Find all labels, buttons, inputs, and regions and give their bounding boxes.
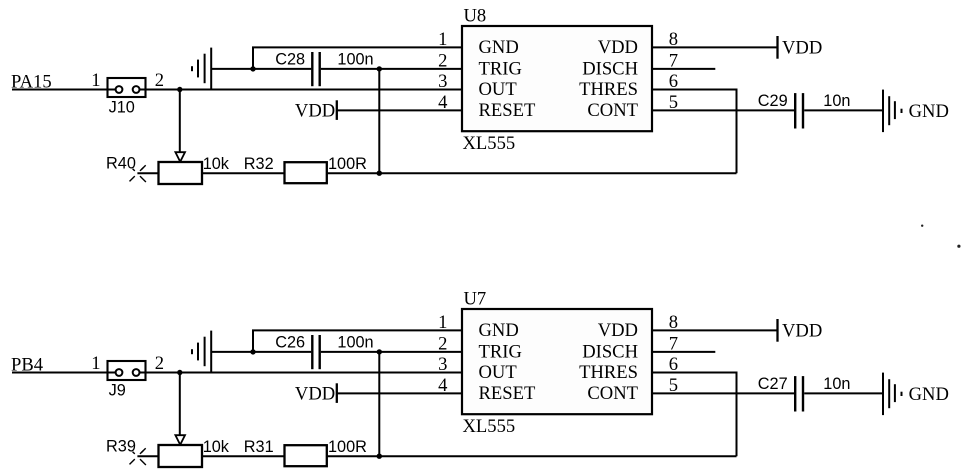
no-connect X marker on R39 <box>130 448 146 465</box>
svg-text:10n: 10n <box>823 375 850 393</box>
svg-text:VDD: VDD <box>782 320 822 341</box>
svg-text:OUT: OUT <box>479 79 518 100</box>
svg-text:R31: R31 <box>244 438 274 456</box>
wire C28 down to RC node <box>378 69 380 173</box>
junction at jumper output <box>177 87 182 92</box>
op IC U8 XL555 body <box>462 26 652 131</box>
svg-text:J10: J10 <box>109 99 135 117</box>
svg-text:C29: C29 <box>758 92 788 110</box>
svg-text:J9: J9 <box>109 382 126 400</box>
power port VDD (pin 8) <box>778 36 823 59</box>
potentiometer R39 wiper arrow <box>175 435 185 445</box>
svg-text:RESET: RESET <box>479 383 536 404</box>
op IC U7 XL555 body <box>462 309 652 414</box>
svg-text:THRES: THRES <box>579 79 638 100</box>
svg-text:R40: R40 <box>106 155 136 173</box>
junction of C28 branch on RC node <box>377 171 382 176</box>
svg-text:100R: 100R <box>328 155 367 173</box>
wire GND net up to pin 1 <box>253 330 462 352</box>
wire CONT pin 5 to C29 <box>652 109 794 111</box>
junction TRIG node <box>377 66 382 71</box>
svg-text:VDD: VDD <box>598 37 638 58</box>
ground (left) <box>192 331 211 373</box>
wire DISCH pin 7 stub <box>652 68 715 70</box>
svg-text:DISCH: DISCH <box>582 341 638 362</box>
svg-text:10k: 10k <box>203 438 230 456</box>
wire potentiometer to R31 <box>202 455 285 457</box>
svg-text:OUT: OUT <box>479 362 518 383</box>
svg-text:6: 6 <box>669 354 678 375</box>
capacitor C29 <box>795 93 803 128</box>
power port VDD (pin 8) <box>778 319 823 342</box>
svg-text:1: 1 <box>91 353 100 374</box>
svg-text:3: 3 <box>438 71 447 92</box>
capacitor C27 <box>795 376 803 411</box>
svg-text:CONT: CONT <box>587 383 638 404</box>
ground (right) <box>883 373 902 416</box>
wire ground to C28 left plate <box>211 68 311 70</box>
svg-text:2: 2 <box>155 353 164 374</box>
wire PA15 to jumper J10 <box>12 89 109 91</box>
svg-text:GND: GND <box>909 101 949 122</box>
capacitor C26 <box>312 335 319 369</box>
svg-text:GND: GND <box>479 37 519 58</box>
svg-text:1: 1 <box>438 312 447 333</box>
junction at jumper output <box>177 370 182 375</box>
resistor R31 <box>285 445 327 466</box>
ground (left) <box>192 48 211 90</box>
wire stub into potentiometer left <box>137 172 158 174</box>
wire potentiometer to R32 <box>202 172 285 174</box>
ground (right) <box>883 90 902 133</box>
svg-text:100R: 100R <box>328 438 367 456</box>
junction GND net <box>250 66 255 71</box>
svg-text:U8: U8 <box>464 6 487 27</box>
svg-text:RESET: RESET <box>479 100 536 121</box>
wire jumper to OUT pin 3 <box>146 89 463 91</box>
svg-text:100n: 100n <box>337 50 373 68</box>
wire C27 to ground <box>804 392 883 394</box>
svg-text:THRES: THRES <box>579 362 638 383</box>
wire THRES pin 6 hook <box>652 90 737 174</box>
svg-text:6: 6 <box>669 71 678 92</box>
wire GND net up to pin 1 <box>253 47 462 69</box>
svg-text:C28: C28 <box>275 50 305 68</box>
wire VDD to RESET pin 4 <box>337 109 462 111</box>
svg-text:CONT: CONT <box>587 100 638 121</box>
wire C26 right plate to TRIG pin 2 <box>321 351 462 353</box>
power port VDD (RESET) <box>295 100 337 121</box>
potentiometer R39 body <box>159 445 203 467</box>
wire C28 right plate to TRIG pin 2 <box>321 68 462 70</box>
wire jumper to OUT pin 3 <box>146 372 463 374</box>
power port VDD (RESET) <box>295 383 337 404</box>
svg-text:4: 4 <box>438 375 447 396</box>
svg-text:TRIG: TRIG <box>479 58 522 79</box>
wire stub into potentiometer left <box>137 455 158 457</box>
wire R32 to THRES hook <box>327 172 737 174</box>
wire DISCH pin 7 stub <box>652 351 715 353</box>
svg-text:GND: GND <box>479 320 519 341</box>
svg-text:TRIG: TRIG <box>479 341 522 362</box>
jumper J9 <box>108 361 146 380</box>
wire THRES pin 6 hook <box>652 373 737 457</box>
jumper J10 <box>108 78 146 97</box>
resistor R32 <box>285 162 327 183</box>
wire VDD pin 8 <box>652 329 778 331</box>
svg-text:VDD: VDD <box>598 320 638 341</box>
svg-text:2: 2 <box>438 51 447 72</box>
wire VDD pin 8 <box>652 46 778 48</box>
wire PB4 to jumper J9 <box>12 372 109 374</box>
svg-text:XL555: XL555 <box>463 133 516 154</box>
wire junction down to wiper arrow <box>179 373 181 436</box>
svg-text:C27: C27 <box>758 375 788 393</box>
svg-text:100n: 100n <box>337 333 373 351</box>
wire ground to C26 left plate <box>211 351 311 353</box>
potentiometer R40 wiper arrow <box>175 152 185 162</box>
no-connect X marker on R40 <box>130 165 146 182</box>
capacitor C28 <box>312 52 319 86</box>
wire R31 to THRES hook <box>327 455 737 457</box>
svg-text:10k: 10k <box>203 155 230 173</box>
svg-text:R39: R39 <box>106 438 136 456</box>
svg-text:4: 4 <box>438 92 447 113</box>
svg-text:1: 1 <box>91 70 100 91</box>
svg-text:GND: GND <box>909 384 949 405</box>
svg-text:VDD: VDD <box>295 100 335 121</box>
svg-text:1: 1 <box>438 29 447 50</box>
wire junction down to wiper arrow <box>179 90 181 153</box>
svg-text:C26: C26 <box>275 333 305 351</box>
svg-text:2: 2 <box>155 70 164 91</box>
svg-text:VDD: VDD <box>295 383 335 404</box>
junction TRIG node <box>377 349 382 354</box>
svg-text:DISCH: DISCH <box>582 58 638 79</box>
svg-text:3: 3 <box>438 354 447 375</box>
wire C29 to ground <box>804 109 883 111</box>
potentiometer R40 body <box>159 162 203 184</box>
wire VDD to RESET pin 4 <box>337 392 462 394</box>
svg-text:VDD: VDD <box>782 37 822 58</box>
svg-text:R32: R32 <box>244 155 274 173</box>
wire C26 down to RC node <box>378 352 380 456</box>
svg-text:10n: 10n <box>823 92 850 110</box>
junction of C26 branch on RC node <box>377 454 382 459</box>
svg-text:XL555: XL555 <box>463 416 516 437</box>
junction GND net <box>250 349 255 354</box>
svg-text:2: 2 <box>438 334 447 355</box>
svg-text:U7: U7 <box>464 289 487 310</box>
wire CONT pin 5 to C27 <box>652 392 794 394</box>
